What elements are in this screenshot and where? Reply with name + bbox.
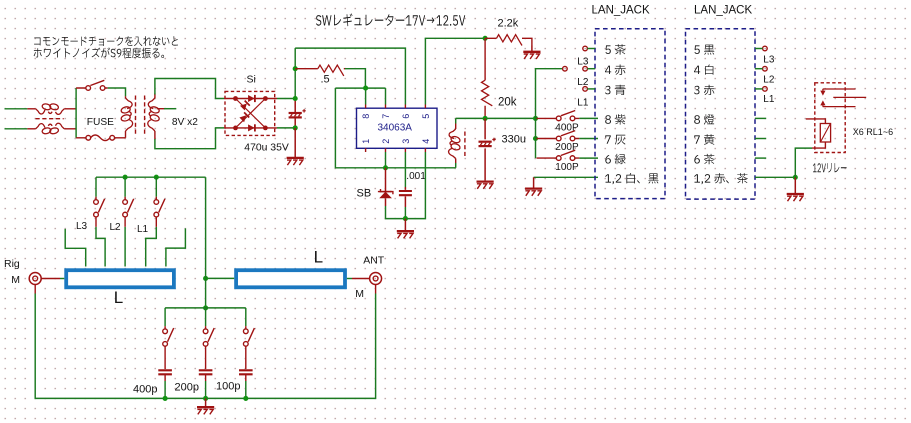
ground — [525, 177, 542, 196]
label L2 — [110, 222, 122, 233]
wire — [385, 152, 387, 168]
terminal — [583, 46, 595, 51]
terminal — [583, 66, 595, 71]
svg-text:5: 5 — [421, 114, 431, 119]
wire — [425, 38, 485, 104]
label 7 灰 — [605, 135, 625, 145]
svg-text:400p: 400p — [133, 384, 157, 396]
svg-text:2.2k: 2.2k — [498, 18, 519, 30]
wire — [335, 88, 455, 168]
resistor R2 2.2k — [485, 35, 532, 46]
junction — [293, 66, 298, 130]
svg-text:1: 1 — [361, 139, 371, 144]
resistor R1 .5 — [295, 65, 345, 76]
svg-text:LAN_JACK: LAN_JACK — [694, 5, 752, 17]
junction — [383, 165, 388, 170]
ground — [197, 398, 214, 414]
svg-text:X6 RL1~6: X6 RL1~6 — [853, 127, 893, 137]
svg-text:4: 4 — [421, 139, 431, 144]
wire — [65, 229, 86, 267]
wire — [108, 88, 126, 96]
svg-text:L3: L3 — [577, 56, 589, 67]
wire — [206, 277, 235, 279]
label LAN_JACK — [592, 5, 650, 17]
label L — [114, 288, 123, 307]
label 8 燈 — [694, 114, 714, 124]
svg-text:470u 35V: 470u 35V — [244, 143, 289, 154]
svg-text:Rig: Rig — [4, 258, 20, 270]
switch 200P — [537, 131, 580, 141]
switch S1 — [76, 80, 108, 90]
capacitor C1 470u — [289, 109, 306, 117]
switch L1 — [154, 177, 165, 227]
wire — [335, 69, 385, 105]
svg-text:L2: L2 — [763, 74, 775, 85]
terminal — [583, 87, 595, 92]
wire — [75, 88, 77, 138]
junction — [483, 36, 488, 41]
svg-text:LAN_JACK: LAN_JACK — [592, 5, 650, 17]
svg-text:34063A: 34063A — [378, 123, 413, 134]
svg-text:L3: L3 — [763, 54, 775, 65]
svg-text:400P: 400P — [555, 122, 579, 133]
label 4 赤 — [605, 65, 625, 75]
label LAN_JACK — [694, 5, 752, 17]
junction — [793, 175, 798, 180]
wire — [164, 108, 176, 110]
capacitor C3 .001 — [399, 152, 412, 207]
svg-text:L1: L1 — [137, 224, 149, 235]
label 100p — [216, 381, 240, 393]
label 400p — [133, 384, 157, 396]
label L3 — [577, 56, 589, 67]
label note1 — [34, 36, 178, 46]
wire — [755, 117, 766, 119]
label 3 青 — [605, 85, 625, 95]
label M — [355, 288, 364, 300]
switch 200p — [203, 308, 214, 369]
resistor R3 20k — [482, 38, 493, 118]
wire — [536, 69, 563, 158]
svg-text:Si: Si — [247, 74, 256, 86]
svg-text:3: 3 — [401, 139, 411, 144]
label 200P — [555, 142, 579, 153]
wire — [294, 48, 296, 128]
wire — [795, 148, 812, 177]
svg-text:L2: L2 — [577, 77, 589, 88]
wire — [35, 294, 375, 399]
wire — [96, 176, 206, 178]
connector P1 — [563, 66, 568, 71]
label 5 茶 — [605, 44, 625, 54]
wire — [755, 176, 795, 178]
ic U1 34063A — [357, 105, 438, 153]
switch L2 — [123, 177, 134, 227]
terminal — [755, 66, 767, 71]
svg-text:L: L — [114, 288, 123, 307]
label Si — [247, 74, 256, 86]
ground — [787, 177, 804, 201]
label 470u 35V — [244, 143, 289, 154]
junction — [203, 276, 208, 281]
svg-text:7: 7 — [381, 114, 391, 119]
label 330u — [502, 134, 526, 146]
svg-text:8V x2: 8V x2 — [172, 117, 198, 128]
wire — [205, 381, 207, 398]
switch 100p — [243, 308, 254, 369]
label 5 黒 — [694, 45, 714, 55]
junction — [163, 396, 249, 401]
capacitor 100p — [239, 370, 253, 381]
svg-text:200P: 200P — [555, 142, 579, 153]
label note2 — [34, 48, 165, 59]
label 20k — [498, 96, 517, 108]
junction — [363, 86, 368, 91]
label L1 — [137, 224, 149, 235]
label 1,2 白、黒 — [605, 173, 658, 184]
svg-text:100P: 100P — [555, 162, 579, 173]
wire — [5, 109, 28, 129]
label SB — [357, 187, 372, 199]
svg-text:M: M — [355, 288, 364, 300]
junction — [483, 116, 538, 141]
label 7 黄 — [694, 134, 714, 144]
label 34063A pins — [361, 114, 431, 134]
svg-text:20k: 20k — [498, 96, 517, 108]
junction — [403, 216, 408, 221]
wire — [386, 152, 426, 219]
label L3 — [76, 221, 88, 232]
terminal ANT M — [352, 273, 382, 294]
wire — [164, 381, 166, 398]
wire — [579, 157, 598, 159]
label L3 — [763, 54, 775, 65]
wire — [166, 228, 186, 266]
svg-text:L3: L3 — [76, 221, 88, 232]
ground — [523, 46, 540, 60]
lan jack J1 — [595, 29, 665, 199]
label 6 緑 — [605, 154, 625, 165]
svg-text:ANT: ANT — [363, 254, 385, 266]
svg-text:200p: 200p — [175, 382, 199, 394]
switch 400P — [537, 111, 580, 121]
wire — [755, 138, 766, 140]
switch L3 — [94, 177, 105, 227]
wire — [579, 117, 598, 119]
label 200p — [175, 382, 199, 394]
label ANT — [363, 254, 385, 266]
wire — [205, 177, 207, 308]
inductor L3 — [66, 270, 174, 287]
capacitor C2 330u — [479, 118, 496, 180]
label X6 RL1~6 — [853, 127, 893, 137]
label 8 紫 — [605, 114, 625, 124]
ground — [397, 219, 414, 239]
label 8V x2 — [172, 117, 198, 128]
wire — [124, 227, 126, 267]
svg-text:6: 6 — [401, 114, 411, 119]
svg-text:FUSE: FUSE — [87, 117, 114, 128]
label 12Vリレー — [813, 163, 847, 173]
ground — [477, 180, 494, 188]
wire — [146, 227, 157, 267]
svg-text:L: L — [314, 248, 323, 267]
label title — [316, 13, 465, 26]
label L — [314, 248, 323, 267]
bridge rectifier D1 — [224, 91, 275, 135]
label 2.2k — [498, 18, 519, 30]
svg-text:.5: .5 — [321, 73, 330, 85]
wire — [96, 227, 105, 267]
schottky diode D5 SB — [378, 168, 393, 206]
label .5 — [321, 73, 330, 85]
fuse F1 — [76, 135, 125, 141]
ground — [287, 128, 304, 165]
label 400P — [555, 122, 579, 133]
label Rig — [4, 258, 20, 270]
terminal — [755, 87, 767, 92]
label L1 — [577, 97, 589, 108]
relay RL1 — [806, 83, 866, 153]
svg-text:L1: L1 — [577, 97, 589, 108]
label pins 1-4 — [361, 139, 431, 144]
label FUSE — [87, 117, 114, 128]
wire — [155, 128, 224, 149]
wire — [265, 99, 295, 128]
inductor L2 — [449, 118, 465, 167]
capacitor 400p — [158, 370, 172, 381]
transformer T1 — [120, 94, 164, 140]
wire — [245, 381, 247, 398]
label .001 — [406, 171, 426, 182]
svg-text:8: 8 — [361, 114, 371, 119]
label 100P — [555, 162, 579, 173]
wire — [60, 278, 352, 280]
capacitor 200p — [199, 370, 213, 381]
terminal — [755, 46, 767, 51]
wire — [755, 157, 766, 159]
label L1 — [763, 94, 775, 105]
label L2 — [763, 74, 775, 85]
svg-text:L1: L1 — [763, 94, 775, 105]
svg-text:M: M — [11, 274, 20, 286]
label 3 赤 — [694, 85, 714, 95]
wire — [155, 79, 224, 99]
common-mode choke L10 — [27, 103, 76, 135]
label M — [11, 274, 20, 286]
label 1,2 赤、茶 — [694, 173, 748, 184]
switch 400p — [163, 308, 174, 369]
wire — [456, 117, 536, 119]
svg-text:L2: L2 — [110, 222, 122, 233]
wire — [165, 307, 246, 309]
junction — [123, 175, 159, 180]
terminal Rig M — [29, 273, 60, 294]
switch 100P — [537, 150, 580, 160]
lan jack J2 — [686, 29, 756, 199]
junction — [203, 305, 208, 310]
wire — [579, 138, 598, 140]
svg-text:2: 2 — [381, 139, 391, 144]
svg-text:100p: 100p — [216, 381, 240, 393]
svg-text:.001: .001 — [406, 171, 426, 182]
inductor L4 — [236, 270, 345, 287]
svg-text:SB: SB — [357, 187, 372, 199]
wire — [534, 176, 598, 178]
label L2 — [577, 77, 589, 88]
svg-text:330u: 330u — [502, 134, 526, 146]
wire — [295, 48, 405, 104]
label 4 白 — [694, 64, 713, 74]
label 6 茶 — [694, 154, 714, 164]
